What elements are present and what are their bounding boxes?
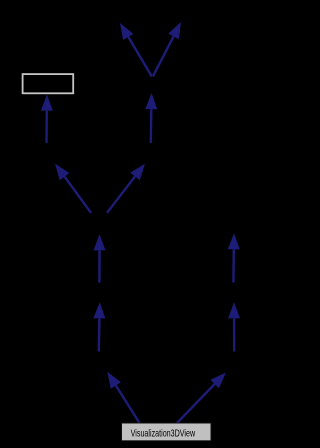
edge row2-right to row1-mid box (vertical wire)	[145, 93, 157, 143]
edge row2-left to gray-border box (vertical wire)	[41, 95, 53, 144]
edge row4-right to row3-right box (vertical wire)	[228, 233, 240, 282]
edge row3-left to row2-left box (diagonal wire up-left)	[55, 164, 91, 213]
node Visualization3DView (current class, gray filled box)	[122, 423, 212, 441]
edge row5-left to row4-left box (vertical wire)	[93, 302, 105, 351]
node undocumented base class (gray border box, top-left)	[23, 74, 74, 93]
edge row1-mid to top-left box (diagonal wire up-left)	[120, 23, 152, 77]
edge row4-left to row3-left box (vertical wire)	[94, 234, 106, 282]
edge Visualization3DView to row5-left box (diagonal wire up-left)	[107, 372, 139, 423]
edge row3-left to row2-right box (diagonal wire up-right)	[107, 164, 145, 213]
svg-text:Visualization3DView: Visualization3DView	[131, 427, 196, 439]
edge row1-mid to top-right box (diagonal wire up-right)	[153, 22, 181, 77]
edge row5-right to row4-right box (vertical wire)	[228, 302, 240, 351]
edge Visualization3DView to row5-right box (diagonal wire up-right)	[177, 372, 226, 423]
